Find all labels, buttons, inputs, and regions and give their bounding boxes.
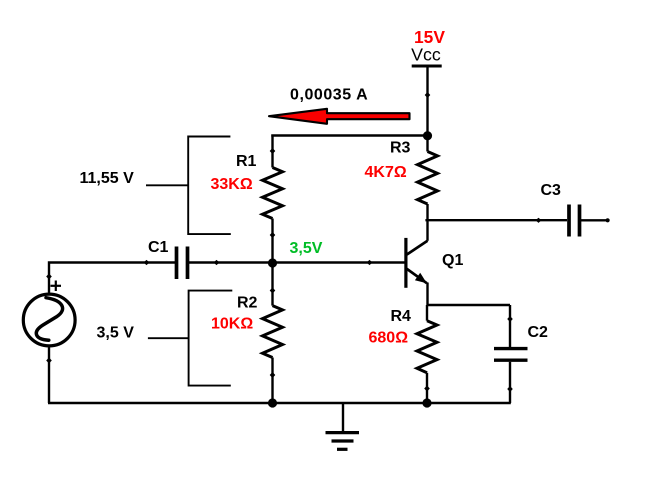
wire marker on C2 bottom lead [507,386,513,392]
terminal pin at C3 output [606,218,610,222]
wire emitter node to C2 [428,304,511,306]
wire marker on C2 top lead [507,316,513,322]
junction dot base node [268,258,277,267]
current arrow 0,00035 A [269,109,410,124]
svg-text:680Ω: 680Ω [369,330,409,347]
ac source V1 [23,281,75,346]
transistor Q1 [406,238,428,288]
wire marker on Vcc stem [425,92,431,98]
junction dot bottom R4 [422,398,431,407]
svg-text:R3: R3 [390,140,411,157]
svg-text:33KΩ: 33KΩ [211,176,253,193]
junction dot bottom R2 [268,398,277,407]
power symbol Vcc [412,65,442,68]
wire C1 to base node [189,261,273,263]
svg-text:3,5 V: 3,5 V [97,325,135,342]
resistor R2 [263,263,283,403]
wire top rail [271,134,427,136]
svg-text:C1: C1 [148,239,169,256]
svg-text:R2: R2 [237,294,258,311]
resistor R1 [263,135,283,264]
svg-text:Vcc: Vcc [411,45,441,65]
bracket for 11,55 V measurement [146,137,231,235]
svg-text:C2: C2 [528,324,549,341]
svg-text:R4: R4 [391,308,412,325]
wire marker on collector-C3 wire [536,218,542,223]
svg-text:C3: C3 [541,182,562,199]
svg-text:10KΩ: 10KΩ [211,316,253,333]
wire marker on base wire [367,260,373,265]
capacitor C2 [494,305,528,403]
junction dot at Vcc/R3 node [423,131,432,140]
wire source to C1 [49,263,175,293]
svg-text:Q1: Q1 [442,252,463,269]
svg-text:0,00035 A: 0,00035 A [290,87,368,104]
wire marker on C1-base wire [214,260,220,265]
svg-text:4K7Ω: 4K7Ω [365,164,407,181]
svg-text:11,55 V: 11,55 V [80,170,135,187]
wire marker on R1 top lead [270,148,276,154]
wire bottom rail [48,402,511,404]
bracket for 3,5 V measurement [148,291,232,386]
wire marker on R2 top lead [270,288,276,294]
wire marker on R1 bottom lead [270,232,276,238]
wire base node to Q1 [273,261,405,263]
capacitor C1 [177,247,188,280]
wire marker on R2 bottom lead [270,372,276,378]
wire marker on source top lead [46,274,52,280]
ground [326,403,360,450]
resistor R3 [418,136,438,241]
wire collector to C3 [425,219,567,221]
wire marker on R4 bottom lead [424,386,430,392]
svg-text:3,5V: 3,5V [290,240,323,257]
svg-text:R1: R1 [236,153,257,170]
wire source bottom [48,347,50,403]
wire emitter down [426,283,428,306]
wire marker on source bottom lead [46,358,52,364]
wire marker on source-C1 wire [144,260,150,265]
resistor R4 [417,305,437,403]
wire Vcc stem [426,66,428,136]
capacitor C3 [569,205,610,237]
